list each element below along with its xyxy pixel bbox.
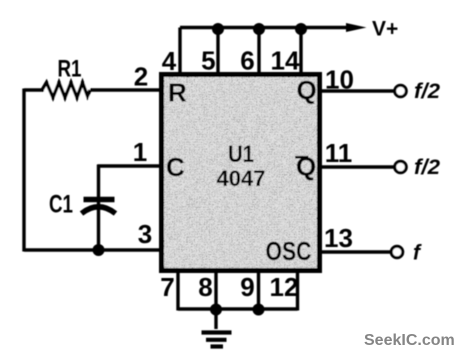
svg-text:12: 12 — [270, 272, 299, 302]
wire: pin 6 stub — [257, 28, 260, 75]
wire: bottom bus — [178, 307, 298, 310]
wire: capacitor branch vertical — [97, 165, 100, 251]
svg-text:8: 8 — [198, 272, 212, 302]
svg-text:R1: R1 — [58, 56, 82, 83]
junction dot pin 6 bus — [253, 23, 265, 35]
wire: pin 8 stub — [214, 271, 217, 311]
svg-text:C: C — [166, 152, 185, 182]
svg-text:OSC: OSC — [266, 236, 312, 266]
ground symbol — [202, 333, 232, 347]
svg-text:6: 6 — [240, 46, 254, 76]
svg-text:U1: U1 — [228, 141, 254, 168]
svg-text:Q: Q — [297, 75, 317, 105]
svg-text:11: 11 — [325, 138, 353, 168]
V+ arrowhead — [346, 23, 367, 32]
wire: top V+ bus — [180, 26, 348, 29]
capacitor C1 curved plate — [82, 207, 116, 214]
svg-text:13: 13 — [324, 223, 353, 253]
svg-text:f: f — [413, 242, 422, 265]
terminal circle pin 13 — [391, 246, 403, 258]
terminal circle pin 10 — [395, 85, 407, 97]
svg-text:10: 10 — [325, 65, 354, 95]
resistor R1 — [44, 83, 90, 98]
svg-text:3: 3 — [138, 219, 152, 249]
junction dot pin 9 bus — [253, 304, 265, 316]
svg-text:C1: C1 — [49, 191, 73, 219]
svg-text:1: 1 — [133, 137, 147, 167]
wire: pin 5 stub — [216, 28, 219, 75]
wire: ground stem — [214, 309, 217, 329]
svg-text:4: 4 — [162, 46, 177, 76]
wire: pin 13 output — [322, 250, 391, 253]
wire: pin 10 output — [322, 89, 394, 92]
wire: pin 1 horizontal — [98, 164, 160, 167]
junction dot pin 8 bus — [210, 304, 222, 316]
svg-text:9: 9 — [240, 272, 254, 302]
svg-text:R: R — [168, 78, 187, 108]
wire: pin 7 stub — [176, 271, 179, 311]
svg-text:f/2: f/2 — [414, 80, 440, 103]
capacitor C1 top plate — [84, 197, 115, 203]
svg-text:7: 7 — [160, 272, 174, 302]
svg-text:14: 14 — [271, 46, 300, 76]
svg-text:5: 5 — [201, 46, 215, 76]
wire: pin 9 stub — [257, 271, 260, 311]
wire: left vertical — [22, 89, 25, 252]
svg-text:SeekIC.com: SeekIC.com — [364, 332, 455, 349]
wire: pin 12 stub — [296, 271, 299, 311]
junction dot capacitor/pin3 — [93, 244, 105, 256]
svg-text:f/2: f/2 — [414, 156, 440, 179]
wire: pin 14 stub — [299, 28, 302, 75]
junction dot pin 5 bus — [212, 23, 224, 35]
wire: pin 4 stub — [178, 28, 181, 75]
terminal circle pin 11 — [395, 161, 407, 173]
svg-text:2: 2 — [134, 62, 148, 92]
wire: pin 2 horizontal — [24, 88, 159, 91]
junction dot pin 14 bus — [295, 23, 307, 35]
wire: pin 3 horizontal — [24, 248, 159, 251]
svg-text:V+: V+ — [372, 18, 398, 41]
IC U1 body — [162, 75, 320, 271]
wire: pin 11 output — [322, 165, 394, 168]
svg-text:4047: 4047 — [217, 166, 266, 191]
